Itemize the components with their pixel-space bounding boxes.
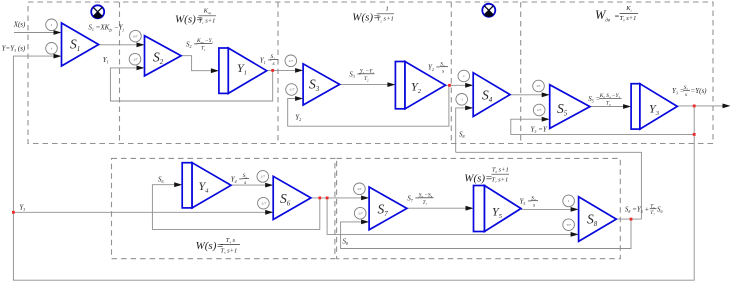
svg-text:S5 =: S5 = bbox=[588, 95, 600, 104]
svg-text:-1: -1 bbox=[460, 98, 463, 102]
svg-text:T1 s+1: T1 s+1 bbox=[199, 18, 216, 26]
svg-text:s: s bbox=[442, 68, 444, 74]
svg-text:=Y(s): =Y(s) bbox=[691, 87, 708, 95]
svg-text:S7 =: S7 = bbox=[407, 195, 419, 204]
svg-text:s: s bbox=[244, 180, 246, 186]
svg-text:T7 s+1: T7 s+1 bbox=[491, 177, 508, 185]
svg-text:W(s)=: W(s)= bbox=[464, 172, 492, 184]
svg-text:Y4 =: Y4 = bbox=[231, 175, 244, 184]
svg-text:s: s bbox=[533, 202, 535, 208]
svg-text:Y5 =: Y5 = bbox=[520, 198, 533, 207]
svg-text:T4 s: T4 s bbox=[226, 237, 236, 245]
svg-text:Y2 =: Y2 = bbox=[428, 64, 441, 73]
svg-text:s: s bbox=[685, 92, 687, 98]
svg-text:T2 s+1: T2 s+1 bbox=[377, 16, 394, 24]
svg-text:T5 s+1: T5 s+1 bbox=[220, 247, 237, 255]
svg-text:T6 s+1: T6 s+1 bbox=[492, 166, 509, 174]
svg-text:T0 s+1: T0 s+1 bbox=[620, 15, 637, 23]
svg-text:Y3 =Y: Y3 =Y bbox=[531, 126, 548, 135]
svg-text:Y=Y3 (s): Y=Y3 (s) bbox=[2, 45, 26, 54]
svg-text:S1 =XKjy −Yj: S1 =XKjy −Yj bbox=[88, 24, 124, 33]
svg-text:1: 1 bbox=[386, 6, 389, 13]
svg-text:X(s): X(s) bbox=[13, 20, 26, 28]
svg-text:s: s bbox=[273, 61, 275, 67]
